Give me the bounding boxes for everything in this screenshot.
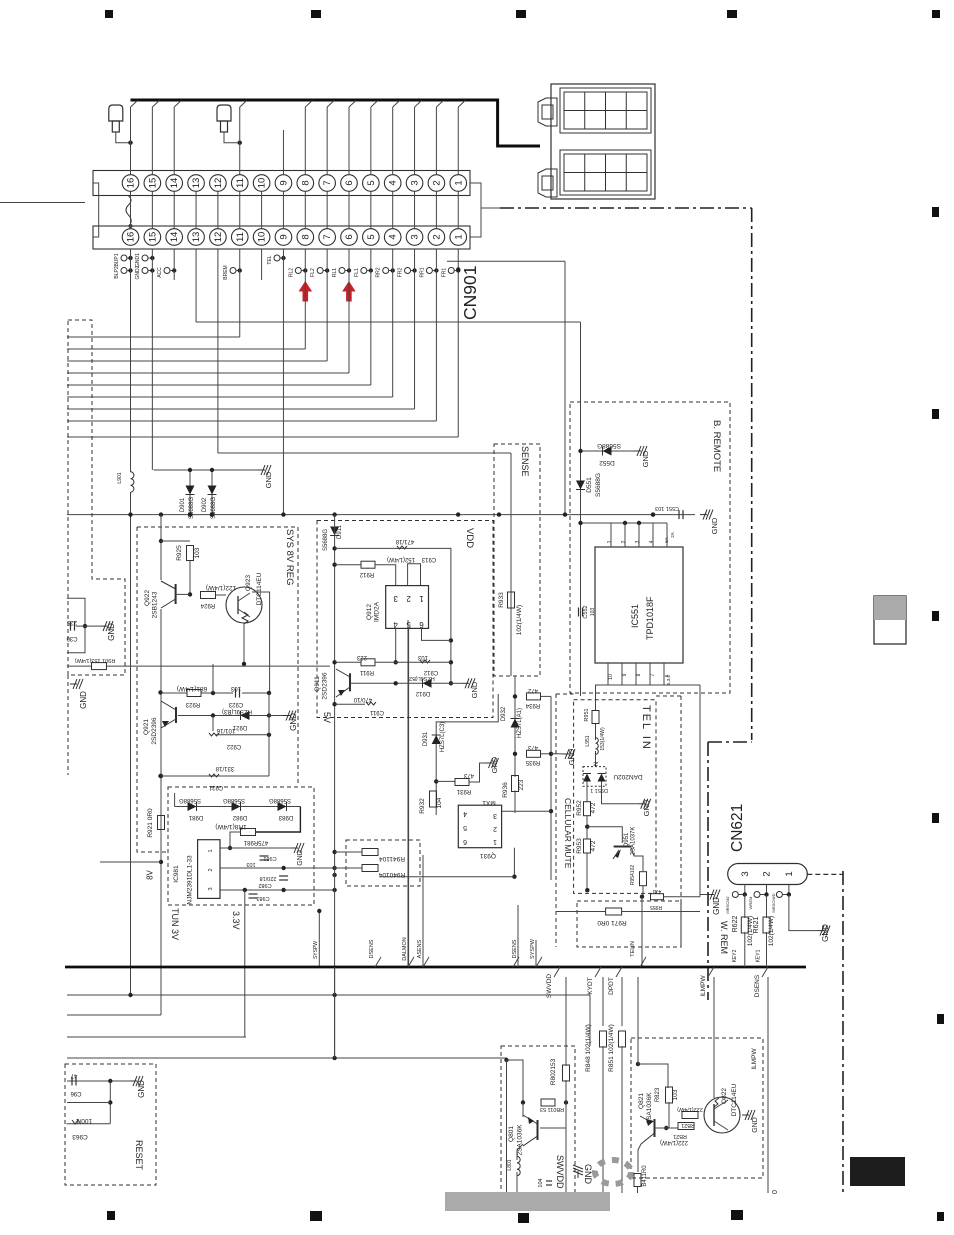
svg-text:9: 9: [278, 180, 289, 185]
svg-text:16: 16: [126, 178, 137, 189]
svg-text:IC551: IC551: [630, 604, 640, 628]
svg-text:L801: L801: [507, 1159, 513, 1170]
svg-text:R940104: R940104: [378, 871, 405, 878]
svg-text:TELIN: TELIN: [630, 941, 636, 957]
svg-text:0: 0: [772, 1190, 779, 1194]
svg-text:RB21: RB21: [681, 1122, 695, 1128]
svg-text:2A: 2A: [670, 532, 675, 538]
svg-text:GND: GND: [583, 1164, 593, 1185]
svg-text:5V: 5V: [322, 712, 332, 723]
svg-text:222(1/4W): 222(1/4W): [677, 1106, 703, 1112]
svg-text:WREM: WREM: [748, 897, 753, 910]
svg-text:12: 12: [213, 178, 224, 189]
svg-text:KYDT: KYDT: [587, 977, 594, 994]
svg-text:D932: D932: [501, 706, 507, 721]
svg-text:C982: C982: [258, 882, 271, 888]
svg-text:10: 10: [257, 178, 268, 189]
svg-text:122(1/4W): 122(1/4W): [206, 584, 236, 591]
svg-text:NJM2391DL1-33: NJM2391DL1-33: [187, 855, 194, 905]
svg-text:5: 5: [463, 824, 467, 831]
svg-text:IMD2A: IMD2A: [374, 601, 381, 622]
svg-text:ACC: ACC: [157, 267, 163, 278]
svg-text:3.3V: 3.3V: [231, 911, 241, 930]
svg-text:R823: R823: [655, 1087, 661, 1102]
svg-text:D981: D981: [188, 814, 203, 820]
svg-text:475R981: 475R981: [243, 839, 268, 845]
svg-text:Q822: Q822: [721, 1088, 728, 1104]
svg-text:GND: GND: [79, 691, 88, 709]
svg-text:FR2: FR2: [398, 268, 404, 278]
svg-text:102(1/4W): 102(1/4W): [516, 605, 523, 635]
svg-text:C913: C913: [421, 556, 436, 562]
svg-text:2SD2396: 2SD2396: [151, 717, 158, 744]
svg-text:R848 102(1/4W): R848 102(1/4W): [585, 1024, 592, 1072]
svg-text:6: 6: [463, 838, 467, 845]
svg-text:6: 6: [419, 620, 424, 629]
svg-text:C981: C981: [263, 855, 276, 861]
svg-text:R935: R935: [525, 759, 540, 765]
svg-text:S5688G: S5688G: [223, 797, 245, 803]
svg-text:DSENS: DSENS: [754, 974, 761, 997]
svg-text:SYSPW: SYSPW: [313, 941, 319, 959]
svg-text:47: 47: [70, 1072, 77, 1078]
svg-text:2: 2: [431, 180, 442, 185]
svg-text:D551: D551: [586, 477, 593, 493]
svg-text:D912: D912: [415, 690, 430, 696]
svg-text:C963: C963: [72, 1133, 88, 1140]
svg-text:GND: GND: [712, 897, 721, 915]
svg-text:4: 4: [388, 180, 399, 185]
svg-text:Q951: Q951: [624, 832, 630, 847]
svg-text:103: 103: [590, 608, 596, 617]
svg-text:W. REM: W. REM: [719, 921, 729, 954]
svg-text:RB011 53: RB011 53: [540, 1106, 564, 1112]
svg-text:KEY1: KEY1: [756, 949, 762, 962]
svg-text:MRSCM/D: MRSCM/D: [771, 893, 776, 912]
svg-text:1: 1: [419, 594, 424, 603]
svg-text:DALMON: DALMON: [402, 937, 408, 961]
svg-text:D911: D911: [337, 524, 343, 539]
svg-text:ILMPW: ILMPW: [751, 1047, 758, 1069]
svg-text:CN621: CN621: [729, 804, 746, 852]
svg-text:IC981: IC981: [173, 865, 180, 883]
svg-text:DTC114EU: DTC114EU: [731, 1083, 738, 1116]
svg-text:5A: 5A: [664, 537, 669, 543]
svg-text:Q911: Q911: [314, 676, 321, 692]
svg-text:B. REMOTE: B. REMOTE: [711, 420, 722, 472]
svg-text:GND: GND: [752, 1117, 759, 1133]
svg-text:Q931: Q931: [480, 852, 496, 859]
svg-text:GND: GND: [490, 756, 499, 773]
svg-text:D901: D901: [180, 497, 186, 512]
svg-text:FL1: FL1: [354, 268, 360, 277]
svg-text:R924: R924: [200, 602, 215, 608]
svg-text:13: 13: [191, 178, 202, 189]
svg-text:R921 0R0: R921 0R0: [147, 808, 154, 838]
svg-text:103: 103: [246, 861, 255, 867]
svg-text:3: 3: [208, 887, 214, 890]
svg-text:S5688G: S5688G: [597, 442, 621, 449]
svg-text:C912: C912: [423, 669, 438, 675]
svg-text:BREM: BREM: [223, 265, 229, 279]
svg-text:104: 104: [538, 1178, 544, 1187]
svg-text:D902: D902: [202, 497, 208, 512]
svg-text:103: 103: [194, 547, 201, 558]
svg-text:DSENS: DSENS: [512, 939, 518, 958]
svg-text:1R8(1/4W): 1R8(1/4W): [215, 823, 246, 830]
svg-text:FL2: FL2: [310, 268, 316, 277]
svg-text:R954102: R954102: [630, 865, 636, 886]
svg-text:103: 103: [230, 685, 241, 691]
svg-text:473: 473: [527, 744, 538, 750]
svg-text:9: 9: [278, 234, 289, 239]
svg-text:GND: GND: [297, 850, 304, 866]
svg-text:1: 1: [607, 540, 613, 543]
svg-text:RL1: RL1: [332, 268, 338, 277]
svg-text:Q923: Q923: [245, 575, 252, 591]
svg-text:Q912: Q912: [366, 604, 373, 620]
svg-text:S5688G: S5688G: [323, 529, 329, 551]
svg-text:152(1/4W): 152(1/4W): [387, 556, 415, 562]
svg-text:104: 104: [436, 797, 443, 808]
svg-text:BUP1: BUP1: [114, 253, 120, 266]
svg-text:3: 3: [635, 540, 641, 543]
svg-text:472: 472: [590, 802, 597, 813]
svg-text:5: 5: [366, 234, 377, 239]
svg-text:R931: R931: [456, 788, 471, 794]
svg-text:RB21: RB21: [673, 1133, 687, 1139]
svg-text:Q921: Q921: [143, 719, 150, 735]
svg-text:VDD: VDD: [464, 528, 475, 548]
svg-text:1: 1: [208, 849, 214, 852]
svg-text:R971 0R0: R971 0R0: [597, 919, 627, 926]
svg-text:FR1: FR1: [441, 268, 447, 278]
svg-text:8V: 8V: [146, 869, 155, 879]
svg-text:S5688G: S5688G: [179, 797, 201, 803]
svg-text:SWVDD: SWVDD: [546, 974, 553, 999]
svg-text:MX1: MX1: [482, 799, 496, 806]
svg-text:TEL: TEL: [267, 255, 273, 264]
svg-text:10: 10: [608, 674, 614, 680]
svg-text:2: 2: [431, 234, 442, 239]
svg-text:220/18: 220/18: [260, 875, 277, 881]
svg-text:R936: R936: [502, 782, 509, 798]
svg-text:3: 3: [410, 234, 421, 239]
svg-text:C96: C96: [70, 1090, 82, 1096]
svg-text:4: 4: [463, 810, 467, 817]
svg-text:102(1/4W): 102(1/4W): [768, 916, 775, 946]
svg-text:1: 1: [453, 234, 464, 239]
svg-text:2SD2396: 2SD2396: [322, 672, 329, 699]
svg-text:5: 5: [366, 180, 377, 185]
svg-text:13: 13: [191, 232, 202, 243]
svg-text:4: 4: [388, 234, 399, 239]
svg-text:N: N: [594, 762, 600, 766]
svg-text:2: 2: [406, 594, 411, 603]
svg-text:R953: R953: [576, 838, 583, 854]
svg-text:RL2: RL2: [288, 268, 294, 277]
svg-text:11: 11: [235, 178, 246, 188]
svg-text:473: 473: [653, 888, 662, 894]
svg-text:GND2: GND2: [135, 265, 141, 279]
svg-text:D982: D982: [232, 814, 247, 820]
svg-text:GND: GND: [264, 471, 273, 488]
svg-text:R923: R923: [185, 701, 200, 707]
svg-text:10: 10: [257, 232, 268, 243]
svg-text:2: 2: [621, 540, 627, 543]
svg-text:7: 7: [650, 673, 656, 676]
svg-text:L951: L951: [585, 735, 591, 746]
svg-text:R911: R911: [359, 669, 374, 675]
svg-text:8: 8: [300, 180, 311, 185]
svg-text:D983: D983: [278, 814, 293, 820]
svg-text:HZS7L(A1): HZS7L(A1): [517, 708, 523, 738]
svg-text:C923: C923: [228, 701, 243, 707]
svg-text:7: 7: [322, 234, 333, 239]
svg-text:SWVDD: SWVDD: [555, 1155, 565, 1189]
svg-text:CELLULAR MUTE: CELLULAR MUTE: [563, 798, 573, 869]
svg-text:472: 472: [527, 687, 538, 693]
svg-text:225: 225: [66, 619, 77, 625]
svg-text:GND: GND: [642, 799, 651, 816]
svg-text:SENSE: SENSE: [520, 446, 530, 477]
svg-text:2: 2: [208, 868, 214, 871]
svg-text:2: 2: [762, 871, 773, 876]
svg-text:3: 3: [740, 871, 751, 876]
svg-text:3: 3: [393, 594, 398, 603]
svg-text:8: 8: [636, 673, 642, 676]
svg-text:8: 8: [300, 234, 311, 239]
svg-text:11: 11: [235, 232, 246, 242]
svg-text:2SA1036K: 2SA1036K: [517, 1124, 524, 1156]
svg-text:R933: R933: [498, 592, 505, 608]
svg-text:R934: R934: [525, 702, 540, 708]
svg-text:472: 472: [590, 840, 597, 851]
svg-text:16: 16: [126, 232, 137, 243]
svg-text:1: 1: [493, 838, 497, 845]
svg-text:R802153: R802153: [550, 1058, 557, 1085]
svg-text:C922: C922: [226, 743, 241, 749]
svg-text:HZS9L(B3): HZS9L(B3): [222, 708, 252, 714]
svg-text:C552: C552: [583, 605, 589, 618]
svg-text:4: 4: [393, 620, 398, 629]
svg-text:DAN202U: DAN202U: [613, 773, 643, 780]
svg-text:14: 14: [169, 178, 180, 189]
svg-text:R955: R955: [650, 904, 662, 910]
svg-text:C551 103: C551 103: [655, 505, 679, 511]
svg-text:331/18: 331/18: [215, 765, 234, 771]
svg-text:12: 12: [213, 232, 224, 243]
svg-text:473: 473: [463, 772, 474, 778]
svg-text:222(1/4W): 222(1/4W): [660, 1139, 688, 1145]
svg-text:471/18: 471/18: [395, 538, 414, 544]
svg-text:15: 15: [147, 232, 158, 243]
svg-text:R621: R621: [753, 917, 760, 934]
svg-text:TUN 3V: TUN 3V: [170, 908, 180, 940]
svg-text:223: 223: [518, 779, 525, 790]
svg-text:DSENS: DSENS: [369, 939, 375, 958]
svg-text:470/10: 470/10: [353, 696, 372, 702]
svg-text:103: 103: [672, 1089, 679, 1100]
svg-text:D951 1: D951 1: [590, 787, 608, 793]
svg-text:D931: D931: [423, 731, 429, 746]
svg-text:GND: GND: [137, 1080, 146, 1098]
svg-text:SYSPW: SYSPW: [530, 938, 536, 959]
svg-text:Q801: Q801: [508, 1126, 515, 1142]
svg-text:S5688G: S5688G: [595, 473, 602, 497]
svg-text:GND: GND: [107, 623, 116, 641]
svg-text:C30: C30: [66, 635, 78, 641]
svg-text:2SA1037K: 2SA1037K: [631, 827, 637, 856]
svg-text:DTC114EU: DTC114EU: [256, 572, 263, 605]
svg-text:GND: GND: [470, 681, 479, 698]
svg-text:103: 103: [417, 654, 428, 660]
svg-text:4: 4: [649, 540, 655, 543]
svg-text:9: 9: [622, 673, 628, 676]
svg-text:TPD1018F: TPD1018F: [645, 596, 655, 640]
svg-text:7: 7: [322, 180, 333, 185]
svg-text:102(1/4W): 102(1/4W): [747, 916, 754, 946]
svg-text:3: 3: [410, 180, 421, 185]
svg-text:153(1/4W): 153(1/4W): [600, 727, 606, 751]
svg-text:R952: R952: [576, 800, 583, 816]
svg-text:MRSCM2: MRSCM2: [725, 896, 730, 914]
svg-text:6: 6: [344, 180, 355, 185]
svg-text:Q922: Q922: [144, 590, 151, 606]
svg-text:14: 14: [169, 232, 180, 243]
svg-text:RESET: RESET: [134, 1140, 144, 1171]
svg-text:RR2: RR2: [376, 267, 382, 277]
svg-text:R901 153(1/4W): R901 153(1/4W): [75, 657, 116, 663]
svg-text:1: 1: [784, 871, 795, 876]
svg-text:3: 3: [493, 812, 497, 819]
svg-text:15: 15: [147, 178, 158, 189]
svg-text:223: 223: [356, 654, 367, 660]
svg-text:101/16: 101/16: [216, 727, 235, 733]
svg-text:ILMPW: ILMPW: [700, 974, 707, 996]
svg-text:5,3,6: 5,3,6: [666, 675, 671, 686]
svg-text:GND: GND: [710, 517, 719, 534]
svg-text:RR1: RR1: [419, 267, 425, 277]
svg-text:2SB1243: 2SB1243: [152, 591, 159, 618]
svg-text:KEY2: KEY2: [732, 949, 738, 962]
svg-text:GND: GND: [641, 450, 650, 467]
svg-text:TEL IN: TEL IN: [640, 705, 652, 751]
svg-text:R912: R912: [359, 571, 374, 577]
svg-text:6: 6: [344, 234, 355, 239]
svg-text:R941104: R941104: [379, 855, 405, 862]
svg-text:S5688G: S5688G: [269, 797, 291, 803]
svg-text:Q821: Q821: [638, 1093, 645, 1109]
svg-text:GND: GND: [567, 748, 576, 765]
svg-text:R851 102(1/4W): R851 102(1/4W): [608, 1024, 615, 1072]
svg-text:DPDT: DPDT: [608, 977, 615, 995]
svg-text:681(1/4W): 681(1/4W): [177, 685, 207, 692]
svg-text:R951: R951: [584, 708, 590, 721]
svg-text:CN901: CN901: [460, 266, 480, 320]
svg-text:GND1: GND1: [135, 253, 141, 267]
svg-text:BLP2: BLP2: [114, 266, 120, 278]
svg-text:D552: D552: [599, 459, 615, 466]
svg-text:B411R0: B411R0: [642, 1165, 648, 1187]
svg-text:2: 2: [493, 825, 497, 832]
svg-text:C911: C911: [369, 709, 384, 715]
svg-text:1: 1: [453, 180, 464, 185]
svg-text:C921: C921: [208, 784, 223, 790]
svg-text:R932: R932: [419, 798, 426, 814]
svg-text:R925: R925: [176, 545, 183, 561]
svg-text:ASENS: ASENS: [417, 939, 423, 958]
svg-text:SYS 8V REG: SYS 8V REG: [284, 529, 295, 586]
svg-text:L901: L901: [117, 472, 123, 483]
svg-text:HZS7L(C3): HZS7L(C3): [440, 722, 446, 752]
svg-text:GND: GND: [289, 713, 298, 731]
svg-text:2SA1036K: 2SA1036K: [646, 1092, 653, 1124]
svg-text:C983: C983: [256, 895, 269, 901]
svg-text:GND: GND: [821, 924, 830, 942]
svg-text:R622: R622: [732, 916, 739, 933]
